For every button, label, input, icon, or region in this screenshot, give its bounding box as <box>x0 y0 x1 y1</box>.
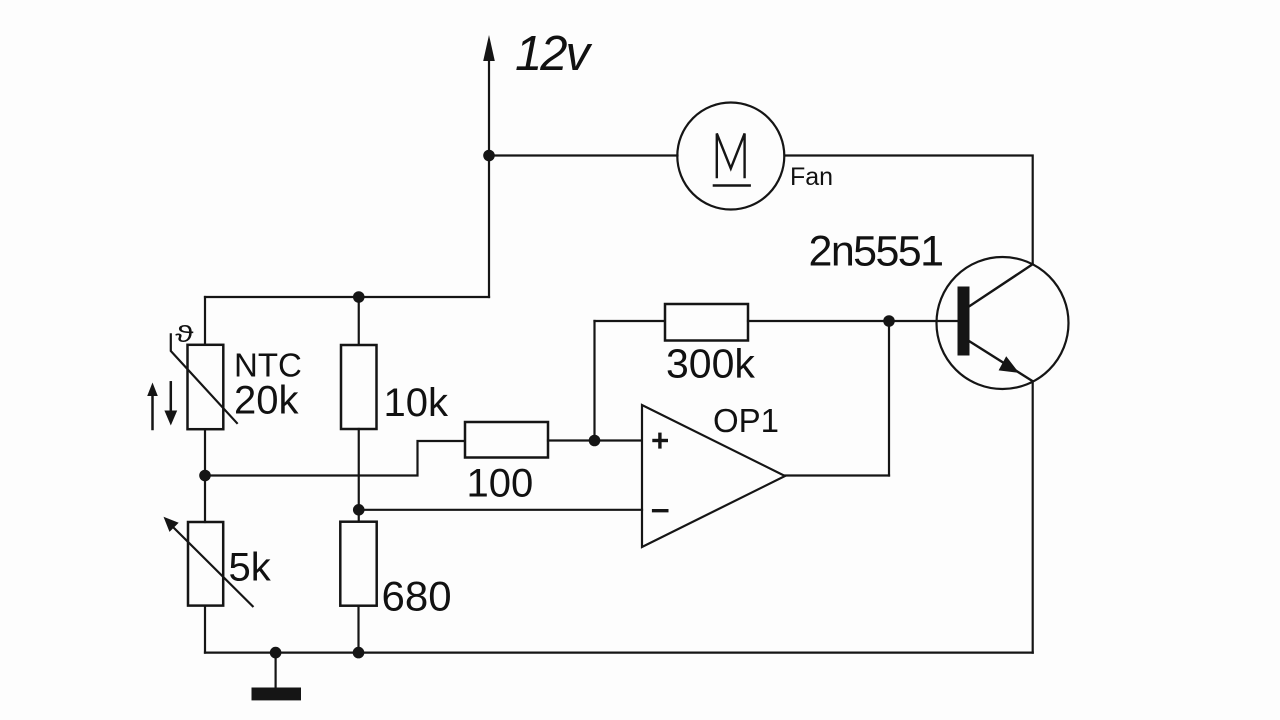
node plus feedback <box>589 435 601 447</box>
node NTC bottom <box>199 470 211 482</box>
resistor 300k <box>665 304 748 341</box>
wire 10k top <box>358 297 360 345</box>
svg-text:5k: 5k <box>229 546 272 590</box>
wire node to 100 resistor <box>205 441 465 476</box>
svg-text:100: 100 <box>467 462 534 506</box>
wire 10k bottom to 680 top <box>358 429 360 522</box>
node minus branch <box>353 504 365 516</box>
wire emitter down <box>1032 381 1034 652</box>
svg-text:12v: 12v <box>515 27 593 81</box>
svg-text:2n5551: 2n5551 <box>809 227 943 275</box>
resistor 10k <box>341 345 377 429</box>
resistor 100 <box>465 422 548 458</box>
svg-text:ϑ: ϑ <box>175 322 194 348</box>
node base feedback <box>883 315 895 327</box>
svg-text:10k: 10k <box>384 381 449 425</box>
wire 5k top <box>204 476 206 523</box>
wire NTC top <box>204 297 206 345</box>
wire bottom rail <box>205 651 1033 653</box>
wire top rail <box>205 296 489 298</box>
wire minus input <box>359 509 642 511</box>
transistor Q1 2n5551 <box>937 257 1069 389</box>
wire 300k right to base node <box>748 320 959 322</box>
node 680 bottom <box>353 647 365 659</box>
arrow down (resistance) <box>164 382 177 425</box>
svg-text:20k: 20k <box>234 379 299 423</box>
svg-text:Fan: Fan <box>790 163 833 191</box>
wire to 300k left <box>595 320 666 322</box>
arrow up (temperature) <box>147 383 158 430</box>
wire NTC bottom to node <box>204 429 206 475</box>
wire motor to collector corner <box>785 156 1033 265</box>
wire 5k bottom <box>204 606 206 653</box>
svg-text:680: 680 <box>382 573 452 620</box>
motor M1 <box>677 103 784 210</box>
wire output to op-amp apex <box>785 474 889 476</box>
node ground <box>270 647 282 659</box>
resistor 680 <box>340 522 376 606</box>
wire 680 bottom <box>357 606 359 653</box>
wire 100 to plus input <box>548 439 642 441</box>
node top rail 10k <box>353 291 365 303</box>
svg-text:OP1: OP1 <box>713 402 779 439</box>
power supply 12v arrow <box>483 35 495 297</box>
svg-text:300k: 300k <box>666 341 755 387</box>
node 12v junction <box>483 150 495 162</box>
thermistor NTC 20k <box>171 322 237 429</box>
op-amp OP1 <box>642 405 785 547</box>
wire 12v node to motor <box>489 154 678 156</box>
wire feedback branch up <box>593 321 595 441</box>
ground <box>252 653 302 701</box>
potentiometer 5k <box>164 517 253 607</box>
wire output vertical <box>888 321 890 476</box>
